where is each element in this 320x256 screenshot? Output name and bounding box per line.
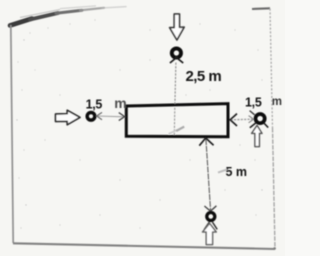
right dimension arrowhead at rectangle — [230, 114, 237, 126]
frame top edge stroke 4 — [80, 8, 104, 11]
vertical line inside rectangle — [173, 108, 176, 135]
left block arrow (right-pointing) — [56, 110, 81, 125]
faint scribble left of 5 m — [218, 169, 227, 172]
frame bottom edge — [13, 243, 275, 249]
left dimension arrowhead at rectangle — [119, 113, 125, 121]
left dimension arrowhead at ring — [97, 112, 102, 119]
left dimension line — [97, 115, 125, 118]
svg-text:2,5 m: 2,5 m — [186, 68, 222, 85]
top block arrow (down) — [170, 14, 185, 40]
bottom dimension arrowhead at ring — [204, 206, 216, 211]
left source ring — [87, 113, 95, 121]
svg-text:m: m — [272, 96, 282, 108]
frame top edge fuzz upper 2 — [60, 6, 96, 9]
right source upper tick — [250, 111, 255, 115]
top source legs (X) — [170, 57, 183, 63]
bottom block arrow (up) — [203, 223, 217, 244]
bottom dimension line (5 m) — [206, 139, 211, 211]
vertical line from top source to rectangle — [175, 63, 176, 104]
bottom dimension arrowhead at rectangle — [199, 138, 213, 146]
right dimension line — [231, 118, 254, 121]
frame top edge stroke 2 — [30, 13, 58, 20]
bottom source legs — [204, 222, 217, 230]
right dimension arrowhead at ring — [249, 116, 254, 123]
frame top edge stroke 3 — [56, 10, 82, 13]
frame bottom-right corner nub — [273, 247, 276, 250]
bottom source ring — [207, 213, 215, 221]
frame top edge right segment — [252, 7, 270, 10]
right block arrow (up, below right ring) — [252, 125, 262, 146]
top source ring — [172, 48, 181, 57]
right source ring — [256, 114, 265, 123]
svg-text:m: m — [114, 95, 126, 111]
central rectangle (room) — [126, 104, 228, 137]
faint arrow scribble inside rectangle — [169, 130, 178, 134]
scan speckles — [16, 19, 262, 228]
frame top edge fading tail — [102, 7, 126, 8]
frame top edge fuzz upper — [20, 10, 60, 18]
frame right edge lower part — [273, 128, 276, 249]
svg-text:1,5: 1,5 — [245, 96, 262, 110]
frame left edge — [11, 25, 13, 243]
svg-text:1,5: 1,5 — [86, 97, 103, 111]
frame right edge — [270, 9, 273, 129]
svg-text:5 m: 5 m — [226, 165, 248, 179]
right source legs (X) — [250, 123, 268, 128]
frame top edge left stroke — [10, 19, 32, 26]
